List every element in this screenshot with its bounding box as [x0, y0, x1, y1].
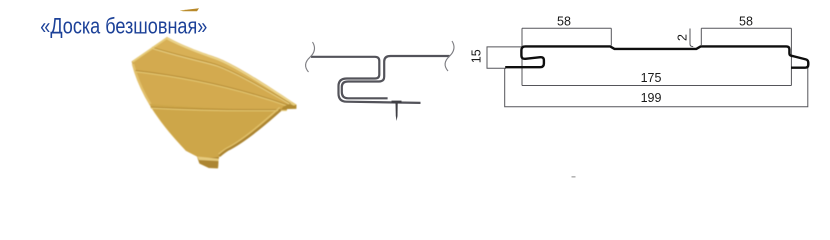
svg-text:58: 58 [739, 14, 753, 28]
svg-text:58: 58 [557, 14, 571, 28]
svg-text:175: 175 [641, 71, 662, 85]
svg-text:199: 199 [641, 91, 662, 105]
svg-text:2: 2 [675, 34, 689, 41]
svg-text:15: 15 [469, 49, 483, 63]
svg-text:«Доска безшовная»: «Доска безшовная» [40, 14, 207, 39]
